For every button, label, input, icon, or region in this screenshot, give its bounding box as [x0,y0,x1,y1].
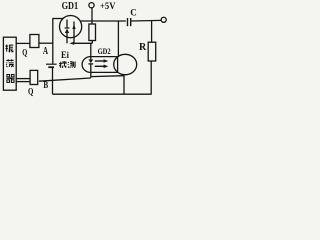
svg-text:Q: Q [28,87,33,97]
svg-text:R: R [139,42,147,53]
svg-text:A: A [43,46,49,57]
svg-text:B: B [43,81,48,91]
svg-text:Q: Q [22,49,27,59]
svg-text:GD2: GD2 [98,46,111,56]
svg-text:GD1: GD1 [62,1,79,12]
svg-text:Ei: Ei [61,50,69,60]
svg-text:+5V: +5V [100,2,116,12]
svg-text:C: C [130,7,137,17]
